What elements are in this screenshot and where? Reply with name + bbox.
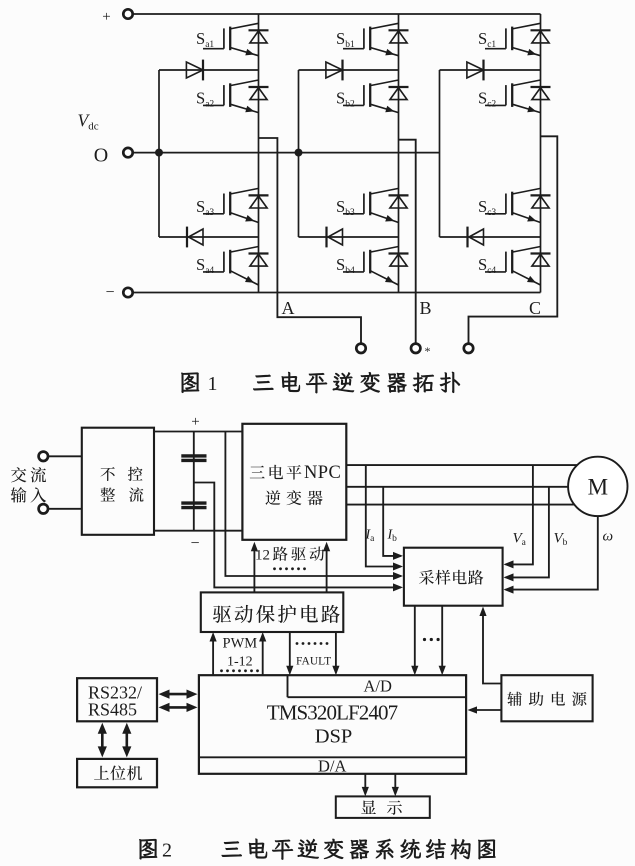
svg-text:RS485: RS485 [88,700,137,720]
svg-text:C: C [529,298,541,318]
svg-text:O: O [94,145,108,167]
svg-text:B: B [419,298,431,318]
igbt Sc1 with antiparallel diode [478,23,551,55]
igbt Sa2 with antiparallel diode [196,80,269,113]
svg-text:A/D: A/D [364,677,393,696]
wire: FAULT signal 1 [286,632,293,675]
label ω [603,529,614,545]
terminal C (phase C output) [464,298,541,353]
wire: clamp branch vertical (A) [158,70,160,237]
label Ib [387,528,398,545]
svg-text:1: 1 [208,373,218,395]
label Vdc [78,111,99,133]
block: three-level NPC inverter (三电平NPC逆变器) [242,424,346,540]
block: host computer (上位机) [77,759,157,787]
wire: phase B leg rail [398,14,400,293]
wire: current sense Ia [366,465,403,570]
label FAULT [296,656,331,668]
svg-text:−: − [190,535,199,552]
block: RS232/RS485 interface [77,678,157,721]
terminal + (DC bus positive) [102,9,132,25]
block: DSP TMS320LF2407 [199,675,466,774]
wire: DSP to display 1 [362,774,369,797]
block: drive protection circuit (驱动保护电路) [201,592,343,632]
label + (DC link) [191,414,199,430]
svg-text:PWM: PWM [223,636,258,652]
svg-text:ω: ω [603,529,614,545]
wire: inverter output phase c to motor [346,504,580,506]
block: rectifier (不控整流) [82,428,154,535]
capacitor C2 (lower DC-link) [181,503,206,508]
igbt Sa4 with antiparallel diode [196,247,269,286]
label Vb [554,531,568,549]
block: sampling circuit (采样电路) [404,548,503,606]
caption figure 2 [139,839,495,862]
wire: DC bus top (rectifier to inverter) [154,431,242,433]
divider: A/D section [288,675,467,697]
terminal: AC input upper [39,452,48,461]
label Ia [365,528,376,545]
wire: positive DC rail [133,13,541,15]
clamp diode Dc1 (upper) [440,60,541,81]
label PWM 1-12 [223,636,258,670]
clamp diode Da2 (lower) [159,227,259,248]
wire: phase A output [259,138,362,344]
clamp diode Db1 (upper) [299,60,399,81]
label dots (drive bus) [273,567,306,570]
clamp diode Da1 (upper) [159,60,259,81]
block: auxiliary power (辅助电源) [501,675,592,721]
terminal B (phase B output) [411,298,432,358]
wire: AC input upper [48,455,82,457]
label 12路驱动 [255,546,324,563]
svg-text:*: * [425,344,431,358]
svg-text:−: − [105,284,114,301]
capacitor C1 (upper DC-link) [181,456,206,461]
svg-text:A: A [282,298,295,318]
igbt Sb2 with antiparallel diode [336,80,409,113]
igbt Sc2 with antiparallel diode [478,80,551,113]
wire: clamp branch vertical (B) [298,70,300,237]
junction: neutral rail to phase A clamp [155,149,163,157]
label AC input (交流输入) [11,467,46,503]
wire: phase C output [469,136,558,343]
igbt Sa3 with antiparallel diode [196,188,269,222]
label dots (A/D) [423,638,440,641]
wire: aux power to DSP [468,706,502,713]
svg-text:D/A: D/A [318,757,347,776]
svg-text:FAULT: FAULT [296,656,331,668]
terminal O (DC bus neutral) [94,145,133,167]
wire: FAULT signal 2 [332,632,339,675]
wire: neutral rail [133,152,440,154]
wire: speed feedback ω [504,516,598,594]
svg-text:2: 2 [162,840,172,862]
bus: RS232 to host 1 [98,723,107,758]
wire: phase A leg rail [258,14,260,293]
igbt Sb4 with antiparallel diode [336,247,409,286]
wire: current sense Ib [383,487,403,560]
label dots (PWM) [220,669,259,672]
svg-text:NPC: NPC [304,463,341,483]
caption figure 1 [181,372,459,395]
label dots (fault) [296,642,329,645]
svg-text:1-12: 1-12 [227,655,253,670]
wire: DC bus bottom (rectifier to inverter) [154,530,242,532]
junction: neutral rail to phase B clamp [295,149,303,157]
wire: sampling to A/D 1 [411,606,418,676]
wire: sampling to A/D 2 [439,606,446,676]
igbt Sb3 with antiparallel diode [336,188,409,222]
wire: voltage sense Vb [504,487,549,582]
igbt Sc4 with antiparallel diode [478,247,551,286]
wire: phase C leg rail [540,14,542,293]
svg-text:M: M [588,475,608,500]
clamp diode Db2 (lower) [299,227,399,248]
wire: clamp branch vertical (C) [439,70,441,237]
wire: gate drive bus 1 (12路驱动) [251,542,258,593]
svg-text:DSP: DSP [315,726,353,748]
wire: inverter output phase b to motor [346,486,570,488]
terminal − (DC bus negative) [105,284,132,301]
divider: D/A section [199,757,466,776]
wire: DSP to display 2 [392,774,399,797]
wire: DC plus sense to sampling [225,432,403,581]
wire: PWM signal 1 [210,632,217,675]
wire: AC input lower [48,508,82,510]
svg-text:+: + [191,414,199,430]
terminal: AC input lower [39,504,48,513]
label − (DC link) [190,535,199,552]
label Va [513,531,527,549]
wire: capacitor leg [193,432,195,531]
wire: gate drive bus 2 [323,542,330,593]
wire: inverter output phase a to motor [346,464,586,466]
bus: RS232 to DSP line 2 [159,703,198,712]
igbt Sa1 with antiparallel diode [196,23,269,55]
bus: RS232 to DSP line 1 [159,690,198,699]
block: display (显示) [336,796,430,818]
motor M [568,457,627,516]
terminal A (phase A output) [282,298,366,353]
wire: voltage sense Va [504,465,533,568]
svg-text:12: 12 [255,548,270,564]
svg-text:+: + [102,9,110,25]
wire: DC midpoint sense to sampling [194,483,403,592]
wire: PWM signal 2 [259,632,266,675]
igbt Sc3 with antiparallel diode [478,188,551,222]
bus: RS232 to host 2 [122,723,131,758]
clamp diode Dc2 (lower) [440,227,541,248]
wire: aux power to sampling [479,607,501,684]
wire: negative DC rail [133,292,541,294]
svg-text:TMS320LF2407: TMS320LF2407 [267,701,398,725]
igbt Sb1 with antiparallel diode [336,23,409,55]
wire: phase B output [399,140,416,344]
